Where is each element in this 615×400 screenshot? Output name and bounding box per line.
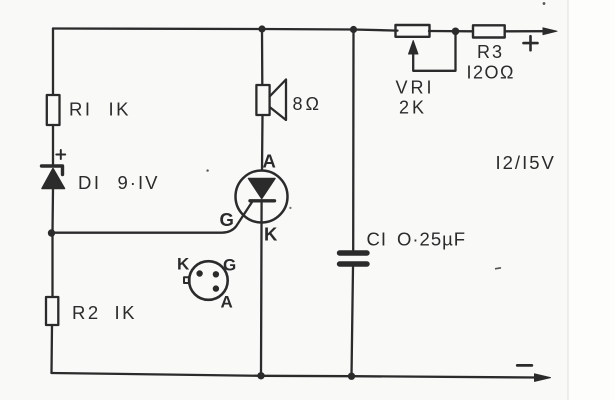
speaker LS body (256, 85, 269, 115)
pin A dot (214, 286, 219, 291)
pinout tab (184, 277, 190, 283)
diode D1 cathode bar (zener) (42, 166, 63, 175)
thyristor CSR1 cathode bar (250, 199, 275, 202)
svg-text:2K: 2K (399, 98, 427, 118)
plus sign at D1 (56, 150, 65, 159)
wire: top rail left section (53, 29, 398, 31)
pinout circle (189, 261, 228, 300)
resistor R1 (47, 95, 60, 125)
wire: speaker to SCR anode (261, 115, 264, 171)
wire: R1 to D1 (52, 125, 54, 164)
node: gate junction (48, 229, 55, 236)
svg-text:G: G (223, 256, 236, 275)
wire: left rail top (52, 29, 54, 96)
resistor R2 (46, 297, 58, 325)
capacitor C1 top plate (340, 250, 368, 255)
wire: top rail to speaker (261, 29, 264, 85)
wire: node to R2 (51, 233, 53, 297)
svg-text:I2/I5V: I2/I5V (496, 152, 556, 173)
svg-text:8Ω: 8Ω (293, 94, 322, 114)
terminal: plus arrowhead (543, 28, 557, 35)
pin K dot (197, 271, 202, 276)
svg-text:R3: R3 (477, 42, 504, 62)
svg-text:RI: RI (69, 99, 93, 120)
node: junction at VR1 wiper (452, 28, 460, 36)
wire: SCR cathode to bottom rail (260, 201, 263, 376)
svg-text:A: A (263, 151, 276, 172)
node: top junction at speaker branch (258, 25, 265, 32)
diode D1 triangle (42, 169, 65, 189)
wire: bottom rail (52, 373, 538, 378)
svg-text:K: K (264, 224, 278, 245)
svg-text:DI: DI (78, 172, 102, 193)
svg-text:I2OΩ: I2OΩ (467, 63, 515, 83)
node: bottom junction at C1 (348, 373, 355, 380)
svg-text:O·25µF: O·25µF (397, 229, 466, 250)
pin G dot (214, 272, 219, 277)
potentiometer VR1 body (396, 25, 430, 37)
wire: top rail between VR1 and R3 (429, 30, 473, 33)
node: top junction at C1 branch (350, 26, 357, 33)
svg-text:A: A (221, 293, 233, 312)
svg-text:VRI: VRI (396, 78, 435, 98)
wire: R2 to bottom rail (50, 325, 53, 373)
svg-text:K: K (177, 255, 190, 274)
svg-text:G: G (220, 209, 234, 230)
thyristor CSR1 triangle (249, 179, 276, 199)
wire: gate wire from node to SCR (54, 201, 253, 233)
speck marks (206, 169, 208, 171)
svg-text:CI: CI (367, 229, 388, 250)
node: bottom junction at SCR cathode (257, 372, 264, 379)
capacitor C1 bottom plate (340, 261, 368, 266)
svg-text:9·IV: 9·IV (118, 172, 160, 193)
wire: top rail from R3 to + terminal (505, 30, 545, 32)
svg-text:R2: R2 (72, 302, 101, 323)
terminal: minus arrowhead (535, 374, 551, 382)
wire: C1 from top rail (352, 30, 355, 251)
wire: D1 to node (51, 189, 54, 234)
potentiometer VR1 wiper arrowhead (409, 41, 419, 55)
wire: C1 to bottom rail (352, 267, 354, 376)
thyristor CSR1 circle (236, 171, 288, 223)
minus sign bottom right (517, 364, 532, 367)
plus sign top right (524, 36, 538, 50)
speaker LS horn (270, 80, 286, 121)
resistor R3 (473, 25, 505, 37)
potentiometer VR1 wiper wire (413, 33, 455, 71)
svg-text:IK: IK (109, 99, 131, 120)
svg-text:IK: IK (115, 302, 137, 323)
